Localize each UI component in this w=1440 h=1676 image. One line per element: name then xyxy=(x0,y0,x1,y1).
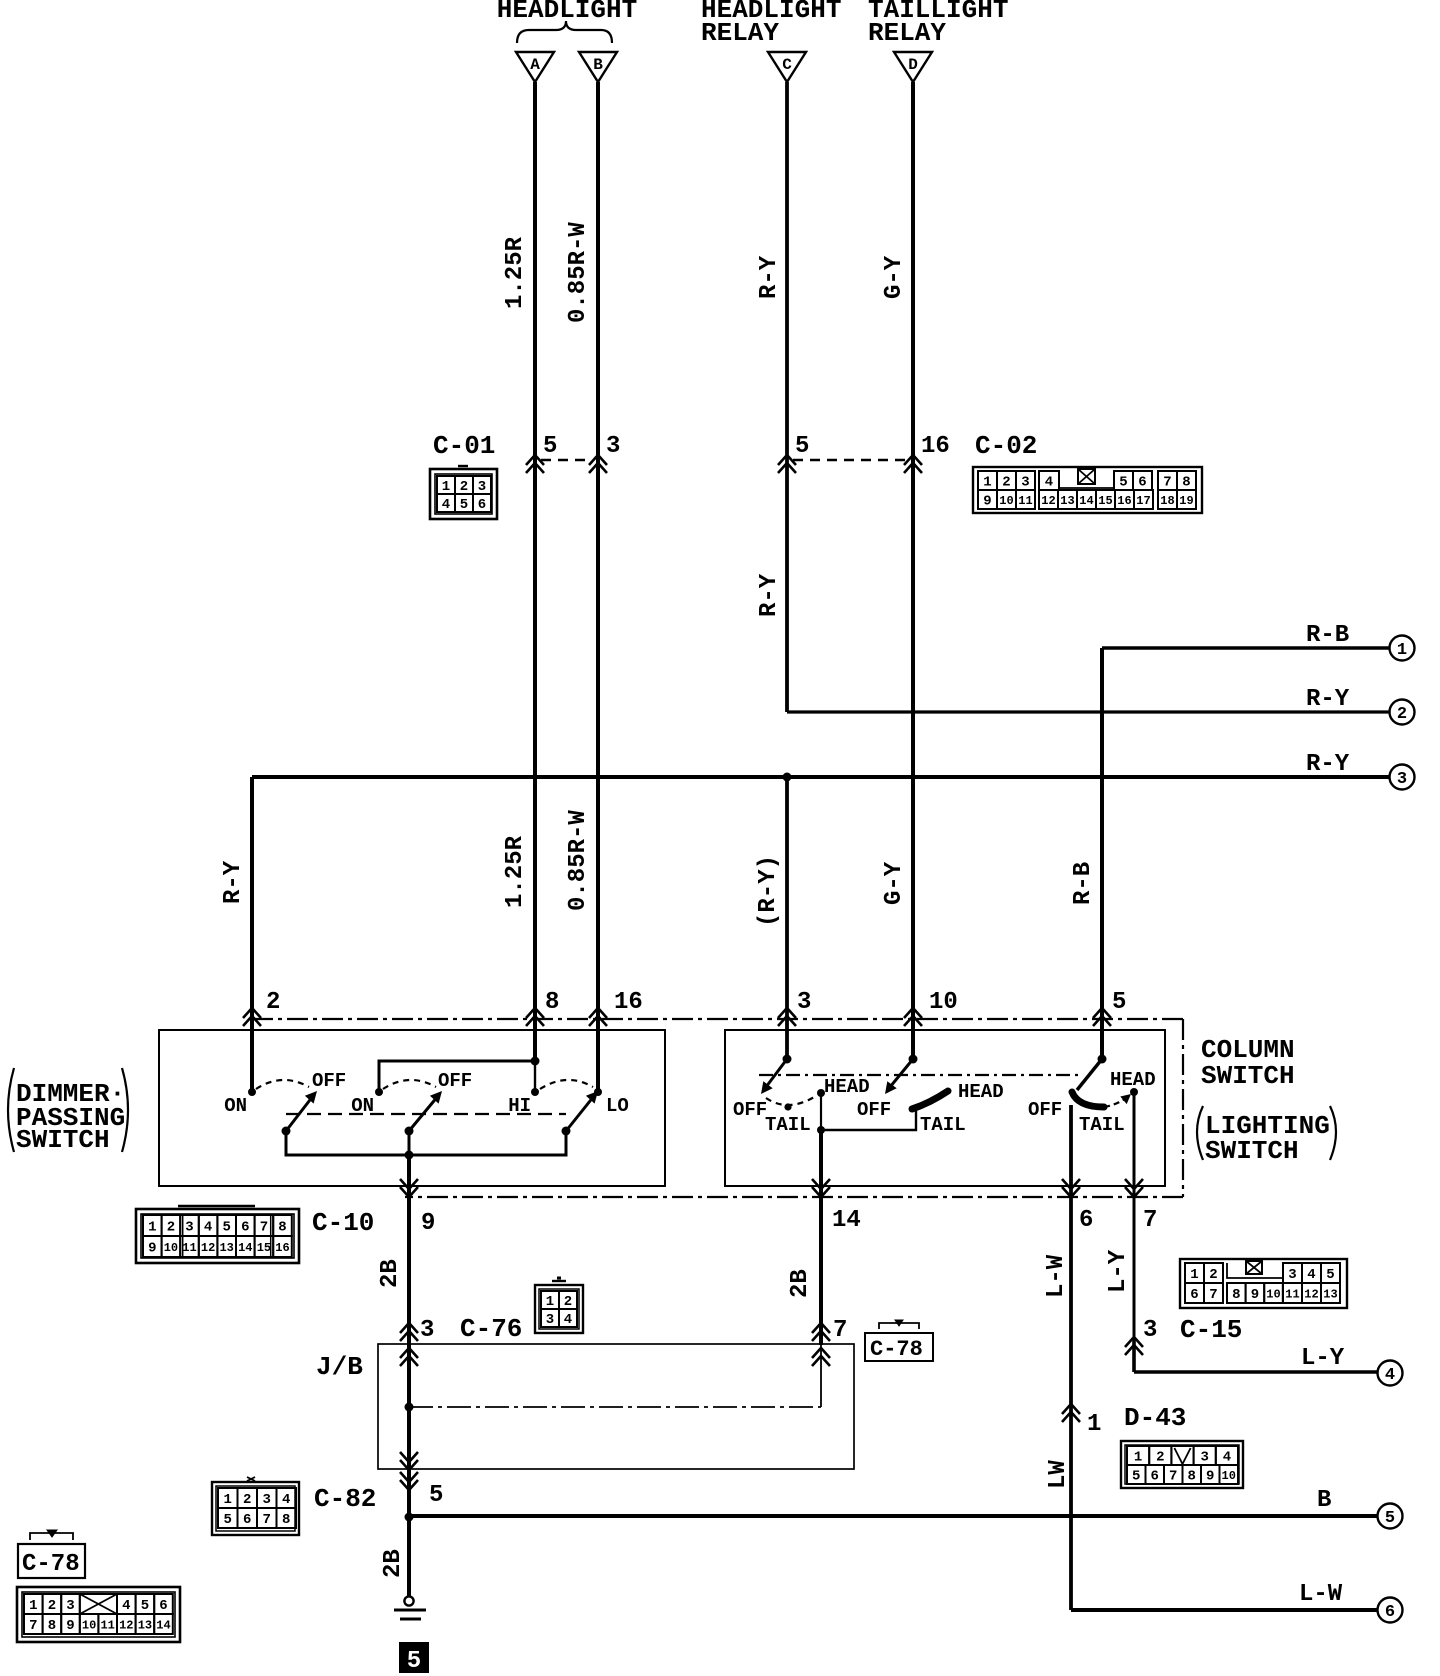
svg-text:14: 14 xyxy=(832,1207,861,1234)
lighting switch 3 lever xyxy=(1077,1059,1102,1090)
pin 8 marker dimmer switch xyxy=(526,1008,544,1018)
svg-text:1: 1 xyxy=(1087,1411,1101,1438)
connector C-10 body xyxy=(136,1206,299,1263)
svg-text:L-W: L-W xyxy=(1299,1581,1343,1608)
wire 6 L-W down xyxy=(1069,1105,1073,1610)
connector C-02 pin 5 marker xyxy=(778,455,796,465)
svg-text:4: 4 xyxy=(1223,1450,1231,1466)
svg-text:2: 2 xyxy=(460,479,468,495)
connector C-01 pin 5 marker xyxy=(526,455,544,465)
ground symbol xyxy=(394,1596,426,1619)
pin 7 marker xyxy=(1125,1187,1143,1197)
svg-text:9: 9 xyxy=(148,1241,156,1257)
svg-text:OFF: OFF xyxy=(438,1070,472,1092)
connector C-02 dashed link xyxy=(793,459,908,462)
svg-text:5: 5 xyxy=(1326,1267,1334,1283)
svg-text:2: 2 xyxy=(1156,1450,1164,1466)
wire R-B vertical from lighting switch pin 5 xyxy=(1100,648,1104,1059)
connector C-15 pin 3 marker xyxy=(1125,1337,1143,1347)
svg-text:3: 3 xyxy=(1200,1450,1208,1466)
svg-text:5: 5 xyxy=(1385,1509,1395,1528)
svg-text:2: 2 xyxy=(1209,1267,1217,1283)
svg-text:C-78: C-78 xyxy=(870,1337,923,1362)
connector C-02 pin 16 marker xyxy=(904,455,922,465)
node 4 xyxy=(1378,1361,1403,1386)
svg-text:15: 15 xyxy=(257,1241,271,1255)
junction inside J/B xyxy=(405,1403,414,1412)
svg-text:2B: 2B xyxy=(380,1549,407,1578)
wire 14 from junction down xyxy=(819,1130,823,1345)
svg-text:9: 9 xyxy=(983,494,991,510)
svg-text:5: 5 xyxy=(429,1482,443,1509)
lighting switch 1 lever xyxy=(766,1059,787,1087)
svg-text:7: 7 xyxy=(260,1220,268,1236)
wire 14 inside J/B xyxy=(820,1345,822,1407)
svg-text:8: 8 xyxy=(545,989,559,1016)
svg-text:2: 2 xyxy=(1002,475,1010,491)
J/B exit chevron xyxy=(400,1460,418,1470)
svg-text:4: 4 xyxy=(1307,1267,1315,1283)
dimmer switch 2 tap wire to 1.25R xyxy=(379,1061,535,1092)
svg-text:6: 6 xyxy=(1190,1287,1198,1303)
svg-text:2B: 2B xyxy=(377,1259,404,1288)
node 2 xyxy=(1390,700,1415,725)
connector C-78 pin 7 marker xyxy=(812,1323,830,1333)
pin 16 marker dimmer switch xyxy=(589,1008,607,1018)
svg-text:RELAY: RELAY xyxy=(868,18,946,48)
svg-text:16: 16 xyxy=(921,433,950,460)
svg-text:2B: 2B xyxy=(787,1269,814,1298)
svg-text:10: 10 xyxy=(1266,1287,1280,1301)
svg-text:4: 4 xyxy=(564,1312,572,1328)
svg-text:11: 11 xyxy=(1285,1287,1299,1301)
dimmer switch pivot 3 xyxy=(562,1127,571,1136)
wire 1.25R into HI contact xyxy=(534,1061,536,1092)
column switch dash-dot boundary top xyxy=(252,1018,1183,1020)
svg-text:OFF: OFF xyxy=(857,1099,891,1121)
wire from HEAD contact down xyxy=(820,1093,822,1130)
svg-text:G-Y: G-Y xyxy=(881,255,908,299)
svg-text:C-01: C-01 xyxy=(433,431,495,461)
svg-text:D-43: D-43 xyxy=(1124,1403,1186,1433)
svg-text:0.85R-W: 0.85R-W xyxy=(565,222,592,323)
dimmer switch common bus xyxy=(286,1131,566,1155)
svg-text:7: 7 xyxy=(29,1618,37,1634)
connector C-76 pin 3 marker xyxy=(400,1323,418,1333)
svg-text:13: 13 xyxy=(138,1618,152,1632)
svg-text:5: 5 xyxy=(407,1648,421,1675)
brace over headlight terminals xyxy=(517,21,612,43)
lighting switch 1 pivot xyxy=(783,1055,792,1064)
svg-text:5: 5 xyxy=(543,433,557,460)
wire B from J/B to ground xyxy=(407,1469,411,1597)
pin 3 marker lighting switch xyxy=(778,1008,796,1018)
svg-text:16: 16 xyxy=(614,989,643,1016)
svg-text:9: 9 xyxy=(66,1618,74,1634)
svg-text:HEAD: HEAD xyxy=(1110,1069,1156,1091)
dimmer switch HI-LO travel arc xyxy=(540,1080,593,1089)
dimmer switch 1 lever xyxy=(286,1096,313,1131)
lighting switch 2 wiper thick arc xyxy=(912,1091,948,1109)
terminal C headlight relay xyxy=(768,52,806,82)
dimmer-passing switch box xyxy=(159,1030,665,1186)
dimmer switch 2 travel arc xyxy=(383,1080,436,1089)
svg-text:16: 16 xyxy=(1117,494,1131,508)
svg-text:1.25R: 1.25R xyxy=(502,835,529,908)
dimmer switch 2 ON contact xyxy=(375,1088,383,1096)
svg-text:18: 18 xyxy=(1160,494,1174,508)
pin 2 marker dimmer switch xyxy=(243,1008,261,1018)
svg-text:C-76: C-76 xyxy=(460,1314,522,1344)
svg-text:9: 9 xyxy=(1251,1287,1259,1303)
svg-text:LO: LO xyxy=(606,1095,629,1117)
svg-text:OFF: OFF xyxy=(1028,1099,1062,1121)
dimmer switch 1 ON contact xyxy=(248,1088,256,1096)
svg-text:3: 3 xyxy=(1143,1317,1157,1344)
svg-text:11: 11 xyxy=(100,1618,114,1632)
svg-text:R-B: R-B xyxy=(1070,862,1097,905)
wire 0.85R-W from terminal B xyxy=(596,82,600,1090)
connector C-78 boxed label bottom left xyxy=(18,1530,85,1578)
svg-text:9: 9 xyxy=(421,1210,435,1237)
dimmer switch pivot 1 xyxy=(282,1127,291,1136)
pin 6 marker xyxy=(1062,1187,1080,1197)
svg-text:6: 6 xyxy=(1079,1207,1093,1234)
svg-text:6: 6 xyxy=(241,1220,249,1236)
svg-text:R-Y: R-Y xyxy=(756,573,783,617)
svg-text:G-Y: G-Y xyxy=(881,861,908,905)
svg-text:5: 5 xyxy=(224,1512,232,1528)
svg-text:13: 13 xyxy=(1323,1287,1337,1301)
svg-text:3: 3 xyxy=(1397,770,1407,789)
wire 9 inside J/B xyxy=(407,1345,411,1469)
connector D-43 body xyxy=(1121,1441,1243,1488)
svg-text:7: 7 xyxy=(1169,1469,1177,1485)
svg-text:8: 8 xyxy=(48,1618,56,1634)
svg-text:12: 12 xyxy=(119,1618,133,1632)
svg-text:5: 5 xyxy=(1119,475,1127,491)
junction wire C on line 3 xyxy=(783,773,792,782)
lighting switch 3 travel arc dashed xyxy=(1104,1096,1128,1107)
svg-text:4: 4 xyxy=(1045,475,1053,491)
svg-text:OFF: OFF xyxy=(733,1099,767,1121)
svg-text:2: 2 xyxy=(48,1598,56,1614)
terminal B headlight xyxy=(579,52,617,82)
svg-text:J/B: J/B xyxy=(316,1352,363,1382)
connector C-82 pin 5 marker xyxy=(400,1480,418,1490)
svg-text:6: 6 xyxy=(478,497,486,513)
J/B internal link to wire 14 xyxy=(409,1406,821,1408)
svg-text:L-Y: L-Y xyxy=(1301,1345,1345,1372)
svg-text:ON: ON xyxy=(224,1095,247,1117)
svg-text:8: 8 xyxy=(1188,1469,1196,1485)
wire link to switch 2 tail xyxy=(821,1106,916,1130)
svg-text:13: 13 xyxy=(1060,494,1074,508)
svg-text:A: A xyxy=(530,56,540,74)
svg-text:7: 7 xyxy=(1209,1287,1217,1303)
pin 10 marker lighting switch xyxy=(904,1008,922,1018)
junction on wire 1.25R xyxy=(531,1057,540,1066)
column switch dash-dot boundary right xyxy=(1182,1019,1184,1197)
svg-text:5: 5 xyxy=(222,1220,230,1236)
svg-text:4: 4 xyxy=(122,1598,130,1614)
svg-text:7: 7 xyxy=(833,1317,847,1344)
svg-text:4: 4 xyxy=(282,1492,290,1508)
column switch dash-dot boundary bottom xyxy=(405,1196,1183,1198)
dimmer switch HI contact xyxy=(531,1088,539,1096)
pin 9 marker xyxy=(400,1187,418,1197)
svg-text:4: 4 xyxy=(442,497,450,513)
svg-text:10: 10 xyxy=(1222,1469,1236,1483)
wire 1.25R from terminal A xyxy=(533,82,537,1061)
svg-text:7: 7 xyxy=(1163,475,1171,491)
wire 7 L-Y down xyxy=(1133,1092,1136,1372)
dimmer switch mechanical link xyxy=(286,1113,566,1115)
svg-text:R-Y: R-Y xyxy=(1306,686,1350,713)
dimmer switch 3 lever xyxy=(566,1096,594,1131)
wire L-Y to node 4 xyxy=(1134,1370,1390,1374)
svg-text:4: 4 xyxy=(204,1220,212,1236)
svg-text:3: 3 xyxy=(478,479,486,495)
svg-text:R-Y: R-Y xyxy=(756,255,783,299)
svg-text:TAIL: TAIL xyxy=(1079,1114,1125,1136)
wire R-Y horizontal to node 3 xyxy=(252,775,1390,779)
connector C-78 body xyxy=(17,1587,180,1642)
svg-text:1: 1 xyxy=(442,479,450,495)
svg-text:14: 14 xyxy=(156,1618,170,1632)
svg-text:12: 12 xyxy=(1304,1287,1318,1301)
svg-text:C-15: C-15 xyxy=(1180,1315,1242,1345)
wire L-W to node 6 xyxy=(1071,1608,1390,1612)
connector C-01 body xyxy=(430,466,497,519)
dimmer switch pivot 2 xyxy=(405,1127,414,1136)
svg-text:3: 3 xyxy=(546,1312,554,1328)
svg-text:R-Y: R-Y xyxy=(220,860,247,904)
svg-text:B: B xyxy=(1317,1487,1331,1514)
connector C-15 body xyxy=(1180,1259,1347,1308)
svg-text:12: 12 xyxy=(201,1241,215,1255)
svg-text:3: 3 xyxy=(1288,1267,1296,1283)
svg-text:2: 2 xyxy=(1397,705,1407,724)
svg-text:10: 10 xyxy=(164,1241,178,1255)
svg-text:2: 2 xyxy=(167,1220,175,1236)
svg-text:8: 8 xyxy=(278,1220,286,1236)
svg-text:6: 6 xyxy=(159,1598,167,1614)
svg-text:7: 7 xyxy=(1143,1207,1157,1234)
wire R-Y down-left to dimmer switch pin 2 xyxy=(250,777,254,1092)
lighting switch 2 lever xyxy=(890,1059,913,1087)
svg-text:2: 2 xyxy=(266,989,280,1016)
svg-text:C-10: C-10 xyxy=(312,1208,374,1238)
svg-text:9: 9 xyxy=(1206,1469,1214,1485)
J/B entry chevron wire 14 xyxy=(812,1348,830,1358)
svg-text:3: 3 xyxy=(66,1598,74,1614)
lighting switch 3 pivot xyxy=(1098,1055,1107,1064)
connector C-02 body xyxy=(973,467,1202,513)
svg-text:5: 5 xyxy=(1132,1469,1140,1485)
svg-text:1: 1 xyxy=(1134,1450,1142,1466)
svg-text:(R-Y): (R-Y) xyxy=(755,855,782,927)
svg-text:SWITCH: SWITCH xyxy=(16,1125,110,1155)
svg-text:11: 11 xyxy=(1018,494,1032,508)
terminal D taillight relay xyxy=(894,52,932,82)
svg-text:13: 13 xyxy=(219,1241,233,1255)
connector C-82 body xyxy=(212,1477,299,1535)
connector C-01 dashed link xyxy=(541,459,592,462)
svg-text:7: 7 xyxy=(263,1512,271,1528)
svg-text:RELAY: RELAY xyxy=(701,18,779,48)
svg-text:L-W: L-W xyxy=(1043,1254,1070,1298)
svg-text:5: 5 xyxy=(1112,989,1126,1016)
wire 2B from dimmer bus pin 9 xyxy=(407,1155,411,1345)
svg-text:R-Y: R-Y xyxy=(1306,751,1350,778)
svg-text:6: 6 xyxy=(1138,475,1146,491)
svg-text:OFF: OFF xyxy=(312,1070,346,1092)
J/B entry chevron wire 9 xyxy=(400,1348,418,1358)
junction block J/B box xyxy=(378,1344,854,1469)
svg-text:5: 5 xyxy=(460,497,468,513)
svg-text:0.85R-W: 0.85R-W xyxy=(565,810,592,911)
svg-text:10: 10 xyxy=(999,494,1013,508)
svg-text:2: 2 xyxy=(564,1294,572,1310)
svg-text:11: 11 xyxy=(182,1241,196,1255)
dimmer switch 2 lever xyxy=(409,1096,438,1131)
svg-text:14: 14 xyxy=(1079,494,1093,508)
svg-text:1: 1 xyxy=(1397,641,1407,660)
svg-text:C: C xyxy=(782,56,792,74)
connector D-43 pin 1 marker xyxy=(1062,1404,1080,1414)
svg-text:B: B xyxy=(593,56,603,74)
svg-text:14: 14 xyxy=(238,1241,252,1255)
svg-text:17: 17 xyxy=(1136,494,1150,508)
svg-text:2: 2 xyxy=(243,1492,251,1508)
label DIMMER PASSING SWITCH xyxy=(8,1068,128,1155)
lighting switch 1 TAIL contact xyxy=(784,1103,791,1110)
page tab 5 xyxy=(399,1642,429,1673)
wire R-B horizontal to node 1 xyxy=(1102,646,1390,649)
node 1 xyxy=(1390,636,1415,661)
connector C-01 pin 3 marker xyxy=(589,455,607,465)
svg-text:SWITCH: SWITCH xyxy=(1201,1061,1295,1091)
svg-text:8: 8 xyxy=(1232,1287,1240,1303)
svg-text:D: D xyxy=(908,56,918,74)
terminal A headlight xyxy=(516,52,554,82)
svg-text:6: 6 xyxy=(1385,1603,1395,1622)
svg-text:1: 1 xyxy=(148,1220,156,1236)
svg-text:16: 16 xyxy=(275,1241,289,1255)
svg-text:3: 3 xyxy=(1021,475,1029,491)
dimmer switch 1 travel arc xyxy=(256,1080,309,1089)
svg-text:1: 1 xyxy=(546,1294,554,1310)
node 6 xyxy=(1378,1598,1403,1623)
svg-text:C-02: C-02 xyxy=(975,431,1037,461)
svg-text:5: 5 xyxy=(141,1598,149,1614)
pin 14 marker xyxy=(812,1187,830,1197)
svg-text:3: 3 xyxy=(797,989,811,1016)
svg-text:4: 4 xyxy=(1385,1366,1395,1385)
svg-text:1.25R: 1.25R xyxy=(502,236,529,309)
svg-text:1: 1 xyxy=(1190,1267,1198,1283)
connector C-76 body xyxy=(535,1278,583,1333)
dimmer switch LO contact xyxy=(594,1088,602,1096)
lighting switch box xyxy=(725,1030,1165,1186)
svg-text:10: 10 xyxy=(82,1618,96,1632)
svg-text:6: 6 xyxy=(243,1512,251,1528)
label LIGHTING SWITCH xyxy=(1197,1106,1336,1166)
svg-text:R-B: R-B xyxy=(1306,622,1349,649)
svg-text:TAIL: TAIL xyxy=(920,1114,966,1136)
svg-text:3: 3 xyxy=(185,1220,193,1236)
svg-text:19: 19 xyxy=(1179,494,1193,508)
svg-text:1: 1 xyxy=(224,1492,232,1508)
junction head wire xyxy=(817,1126,825,1134)
wire R-Y from terminal C xyxy=(785,82,789,712)
node 5 xyxy=(1378,1504,1403,1529)
svg-text:1: 1 xyxy=(29,1598,37,1614)
junction ground node xyxy=(405,1513,414,1522)
lighting switch 2 pivot xyxy=(909,1055,918,1064)
lighting switch 1 HEAD contact xyxy=(817,1089,825,1097)
connector C-78 boxed label near J/B xyxy=(865,1320,933,1362)
lighting switch 1 travel arc xyxy=(766,1096,816,1105)
svg-text:10: 10 xyxy=(929,989,958,1016)
svg-text:HEAD: HEAD xyxy=(824,1076,870,1098)
svg-text:5: 5 xyxy=(795,433,809,460)
lighting switch 3 wiper thick arc xyxy=(1072,1092,1104,1107)
svg-text:8: 8 xyxy=(282,1512,290,1528)
svg-text:15: 15 xyxy=(1098,494,1112,508)
svg-text:SWITCH: SWITCH xyxy=(1205,1136,1299,1166)
wire G-Y from terminal D xyxy=(911,82,915,1059)
svg-text:1: 1 xyxy=(983,475,991,491)
svg-text:3: 3 xyxy=(420,1317,434,1344)
node 3 xyxy=(1390,765,1415,790)
svg-text:LW: LW xyxy=(1045,1460,1072,1489)
svg-text:TAIL: TAIL xyxy=(765,1114,811,1136)
svg-text:3: 3 xyxy=(263,1492,271,1508)
wire B horizontal to node 5 xyxy=(409,1514,1390,1518)
svg-text:8: 8 xyxy=(1182,475,1190,491)
svg-text:HEAD: HEAD xyxy=(958,1081,1004,1103)
svg-text:L-Y: L-Y xyxy=(1105,1249,1132,1293)
svg-text:C-82: C-82 xyxy=(314,1484,376,1514)
svg-text:12: 12 xyxy=(1041,494,1055,508)
svg-text:C-78: C-78 xyxy=(22,1551,80,1578)
pin 5 marker lighting switch xyxy=(1093,1008,1111,1018)
junction dimmer bus xyxy=(405,1151,414,1160)
svg-text:3: 3 xyxy=(606,433,620,460)
lighting switch mechanical link xyxy=(759,1074,1082,1076)
wire R-Y horizontal to node 2 xyxy=(787,710,1390,713)
lighting switch 3 HEAD contact xyxy=(1130,1088,1138,1096)
wire (R-Y) from line 3 to lighting switch pin 3 xyxy=(785,777,789,1059)
svg-text:6: 6 xyxy=(1151,1469,1159,1485)
